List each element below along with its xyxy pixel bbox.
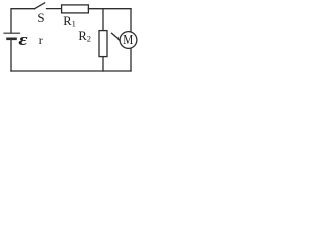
battery positive plate [4,32,20,34]
svg-text:R1: R1 [63,14,76,29]
wire top-left (battery + to switch hinge) [11,9,35,33]
svg-text:S: S [37,10,44,25]
wire motor to bottom-right corner [130,48,132,71]
battery negative plate [8,37,16,40]
svg-text:M: M [123,33,133,48]
wire R1 to top-right corner [88,8,131,10]
resistor R2 [99,31,107,57]
switch S blade [35,3,45,9]
motor M circle [120,32,137,49]
wire right border top (corner to motor) [130,9,132,32]
wire battery - to bottom-left corner [10,39,12,71]
wire switch contact to R1 [47,8,62,10]
wire top node to R2 [102,9,104,31]
bottom wire [11,70,131,72]
svg-text:r: r [39,33,43,47]
resistor R1 [62,5,89,13]
arrow pointing at motor [112,33,120,40]
svg-text:R2: R2 [78,29,91,44]
wire R2 to bottom wire [102,57,104,71]
svg-text:ε: ε [18,31,28,50]
